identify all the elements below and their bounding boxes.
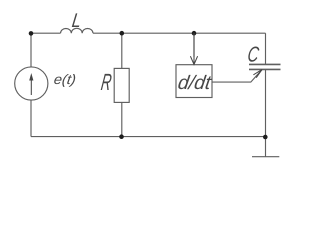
inductor L xyxy=(61,28,94,33)
source arrow xyxy=(30,80,32,95)
resistor R branch bottom wire xyxy=(121,102,123,136)
resistor R body xyxy=(114,68,129,102)
svg-text:R: R xyxy=(99,70,113,96)
wire d/dt output xyxy=(212,70,262,83)
svg-text:e(t): e(t) xyxy=(53,71,77,87)
node top-left xyxy=(29,31,34,36)
wire left branch lower xyxy=(30,100,32,137)
arrow to capacitor xyxy=(253,70,262,78)
wire capacitor bottom xyxy=(265,69,267,136)
node R top xyxy=(120,31,125,36)
wire left branch upper xyxy=(30,33,32,67)
arrow into d/dt xyxy=(193,33,195,64)
ground xyxy=(265,137,267,157)
block U2 d/dt box xyxy=(176,65,212,98)
node right bottom xyxy=(263,135,268,140)
wire to d/dt block xyxy=(193,33,195,57)
svg-text:L: L xyxy=(71,10,83,32)
source U1 circle e(t) xyxy=(15,67,48,100)
wire top-left segment xyxy=(31,32,61,34)
wire top-right segment xyxy=(93,32,266,34)
wire capacitor top xyxy=(265,33,267,64)
capacitor C plates xyxy=(249,64,281,69)
svg-text:C: C xyxy=(246,41,261,66)
svg-text:d/dt: d/dt xyxy=(177,72,214,94)
wire bottom xyxy=(31,136,266,138)
node d/dt top xyxy=(192,31,197,36)
resistor R branch top wire xyxy=(121,33,123,68)
node R bottom xyxy=(119,134,124,139)
